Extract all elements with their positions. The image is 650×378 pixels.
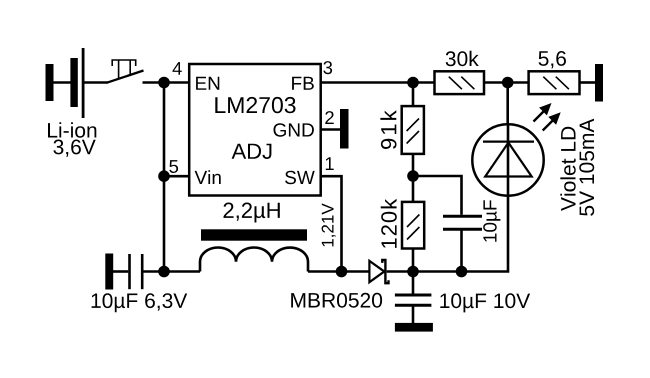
battery label Li-ion [48, 122, 96, 137]
node E junction 30k/5,6/LD [502, 77, 514, 89]
diode D1 MBR0520 triangle [369, 261, 384, 282]
U1 pin label Vin [195, 170, 221, 184]
wire R3 to node F [412, 154, 415, 176]
resistor R4 120k [402, 202, 424, 249]
node B junction Vin [158, 170, 170, 182]
wire node A to EN pin [164, 81, 189, 84]
wire switch to node A [143, 81, 165, 84]
label 5V 105mA rotated [579, 119, 594, 216]
U1 pin label SW [285, 171, 315, 185]
wire node F down to R4 [412, 176, 415, 202]
laser diode LD1 circle [472, 124, 543, 195]
wire through LD1 [507, 125, 510, 195]
label 10uF 6,3V [92, 293, 188, 312]
wire node I to D1 anode [342, 270, 370, 273]
resistor R2 5,6 [529, 71, 580, 94]
node H junction D1/R4/C3 [407, 266, 419, 278]
label 10uF 10V [440, 293, 530, 312]
terminal output bar [595, 64, 603, 102]
wire R2 to output terminal [580, 81, 596, 84]
resistor R1 30k [435, 71, 485, 94]
U1 part name LM2703 [215, 97, 295, 113]
U1 pin label GND [274, 123, 314, 137]
label 91k rotated [380, 110, 396, 149]
label 1,21V rotated [322, 203, 336, 246]
pin 4 number label [173, 62, 182, 75]
wire node H to node G [413, 270, 462, 273]
wire battery to switch S1 [85, 81, 108, 84]
label 30k [446, 51, 479, 66]
inductor L1 core bar [201, 229, 307, 240]
pin 3 number label [323, 61, 332, 74]
node C junction C1/Vin rail [158, 266, 170, 278]
pushbutton switch S1 actuator [112, 60, 136, 79]
label Violet LD rotated [560, 127, 575, 211]
pin 2 number label [325, 111, 333, 124]
label 120k rotated [381, 199, 397, 248]
LD1 light arrow 1 [534, 103, 552, 122]
terminal GND pin 2 bar [340, 109, 349, 149]
wire node C to inductor L1 [164, 270, 200, 273]
wire node E to R2 [508, 81, 529, 84]
label 2,2uH [224, 203, 280, 223]
U1 pin label EN [196, 77, 219, 90]
capacitor C2 10uF plates [443, 216, 482, 229]
node G junction C2/LD rail [456, 266, 468, 278]
capacitor C1 10uF 6,3V terminal bar [105, 254, 113, 290]
U1 pin label FB [292, 77, 314, 90]
battery label 3,6V [53, 140, 95, 157]
battery BT1 thick plate [70, 58, 77, 107]
LD1 triangle [485, 143, 532, 177]
capacitor C3 10uF 10V plates [395, 295, 432, 305]
wire SW pin right and down to node I [321, 176, 342, 271]
wire node A down to node B [163, 83, 166, 177]
wire node E down to LD1 top [506, 83, 509, 126]
wire LD1 down to bottom rail [462, 195, 509, 272]
wire battery terminal to plate [53, 81, 71, 84]
pin 1 number label [326, 157, 334, 170]
wire node D to R1 [413, 81, 435, 84]
label 5,6 [539, 51, 567, 68]
wire C3 to ground [412, 305, 415, 323]
wire node B to Vin pin [164, 175, 189, 178]
ground symbol [395, 323, 433, 332]
node A junction battery/EN [158, 77, 170, 89]
diode D1 schottky cathode bar [382, 260, 388, 283]
battery BT1 Li-ion terminal bar [46, 64, 54, 101]
wire C1 to node C [143, 270, 164, 273]
label 10uF rotated [483, 200, 500, 242]
pushbutton switch S1 lever [107, 71, 144, 83]
IC U1 LM2703 body [189, 64, 321, 196]
LD1 cathode bar [483, 141, 534, 143]
wire R1 to node E [484, 81, 508, 84]
wire FB pin to node D [321, 81, 413, 84]
node D junction FB/30k/91k [407, 77, 419, 89]
LD1 light arrow 2 [543, 112, 561, 130]
battery BT1 thin plate [82, 48, 85, 118]
wire L1 to node I [308, 270, 342, 273]
inductor L1 coil [200, 248, 308, 272]
resistor R3 91k [402, 106, 424, 154]
wire node B down to node C [163, 176, 166, 271]
wire node H down to C3 [412, 272, 415, 294]
wire C1 terminal to plate [113, 270, 128, 273]
wire node D down to R3 [412, 83, 415, 107]
node F junction R3/R4/C2 [407, 170, 419, 182]
wire C2 down to node G [460, 229, 463, 271]
wire node F right and down to C2 [413, 176, 462, 215]
label MBR0520 [291, 293, 382, 308]
capacitor C1 plates [130, 254, 143, 289]
pin 5 number label [169, 160, 178, 173]
wire GND pin to ground terminal [321, 128, 340, 131]
U1 label ADJ [232, 144, 272, 159]
node I junction SW/L1/D1 [336, 266, 348, 278]
wire D1 cathode to node H [387, 270, 413, 273]
wire R4 down to node H [412, 249, 415, 272]
